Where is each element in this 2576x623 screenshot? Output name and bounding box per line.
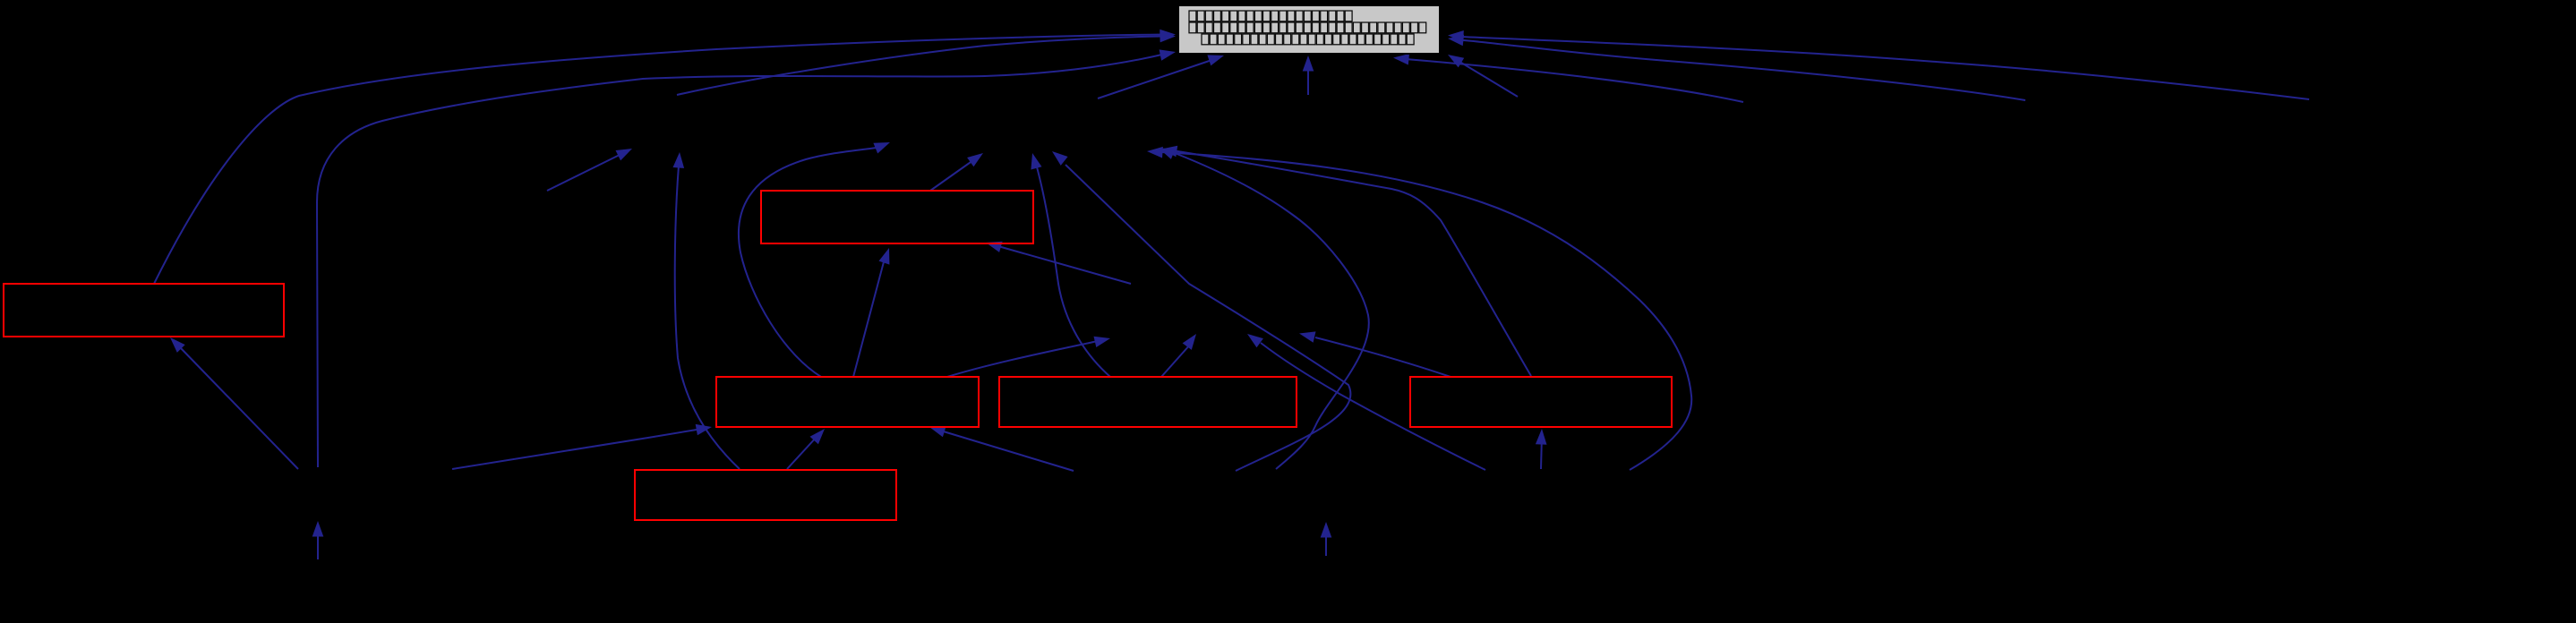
- node box3 (red, truncated): [716, 377, 979, 427]
- edge box4 to nodeC: [1031, 153, 1110, 377]
- edge nodeR3 to root: [1393, 54, 1743, 102]
- edge box3 to nodeM: [947, 337, 1110, 377]
- edge nodeG to box3: [929, 426, 1074, 471]
- edge nodeF2 to nodeC (far hook): [1147, 147, 1691, 470]
- edge nodeA5 to root: [317, 49, 1176, 467]
- edge nodeL1 to root: [677, 31, 1176, 95]
- edge box2 to nodeC: [930, 153, 983, 191]
- edge nodeR1 to root: [1448, 30, 2309, 99]
- edge nodeC to root: [1098, 55, 1224, 98]
- edge box1 to root: [154, 30, 1176, 284]
- node box4 (red, truncated): [999, 377, 1297, 427]
- node box2 (red, truncated): [761, 191, 1033, 243]
- edge box3 to nodeL2: [739, 142, 890, 377]
- edge nodeW2 to nodeL1: [547, 149, 632, 191]
- node box6 (red, truncated): [635, 470, 896, 520]
- edge nodeF1 to nodeM: [1247, 334, 1485, 470]
- edge nodeD to root: [1303, 55, 1314, 95]
- edge box3 to box2: [853, 248, 889, 377]
- edge nodeR0 to root: [1448, 55, 1518, 97]
- node box1 (red, truncated): [4, 284, 284, 337]
- edge rank6 to nodeA5: [312, 521, 324, 559]
- edge nodeA5 to box3: [452, 424, 712, 469]
- edge nodeR2 to root: [1448, 35, 2025, 100]
- node root (gray, current file): [1178, 5, 1440, 54]
- edge box6 to nodeL1: [673, 152, 740, 469]
- edge rank6 to nodeF0: [1321, 522, 1332, 556]
- edge nodeM to box2: [986, 242, 1131, 284]
- edge nodeG to nodeC (long hook): [1052, 151, 1350, 471]
- edge box4 to nodeM: [1161, 334, 1196, 377]
- edge box5 to nodeM: [1299, 331, 1451, 377]
- edge box6 to box3: [787, 429, 825, 469]
- node box5 (red, truncated): [1410, 377, 1672, 427]
- edge box5 to nodeC: [1161, 146, 1531, 376]
- edge node to box5: [1536, 429, 1547, 469]
- edge nodeG to nodeC (near hook): [1159, 149, 1369, 470]
- edge nodeA5 to box1: [170, 337, 298, 469]
